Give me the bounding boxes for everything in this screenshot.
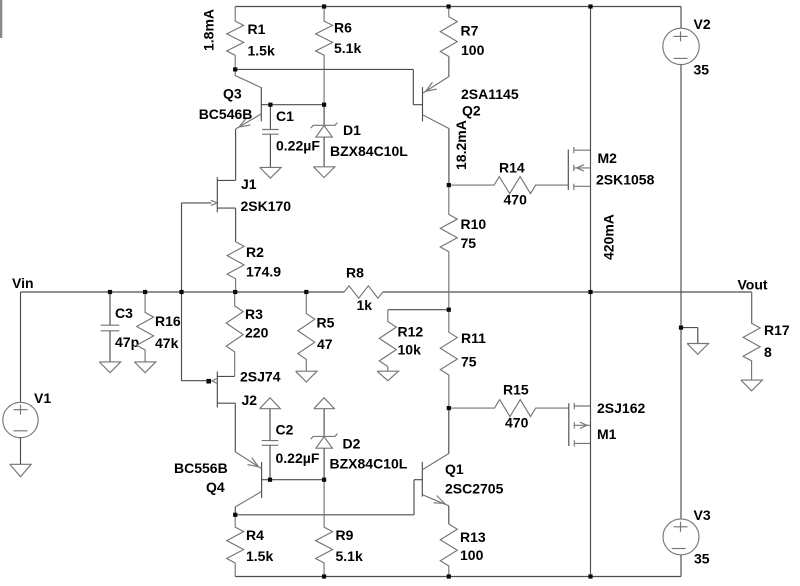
svg-text:V2: V2 (694, 16, 711, 32)
svg-text:35: 35 (694, 62, 710, 78)
svg-text:100: 100 (460, 547, 484, 563)
svg-text:D2: D2 (343, 436, 361, 452)
svg-text:V3: V3 (694, 507, 711, 523)
svg-text:D1: D1 (343, 122, 361, 138)
svg-text:2SC2705: 2SC2705 (445, 481, 504, 497)
svg-text:5.1k: 5.1k (336, 548, 363, 564)
svg-text:1k: 1k (357, 297, 373, 313)
svg-text:10k: 10k (398, 342, 422, 358)
svg-text:2SA1145: 2SA1145 (461, 86, 519, 102)
svg-text:35: 35 (694, 551, 710, 567)
svg-text:2SJ74: 2SJ74 (240, 369, 281, 385)
svg-text:220: 220 (245, 325, 269, 341)
svg-text:8: 8 (764, 344, 772, 360)
svg-text:R11: R11 (461, 330, 486, 346)
svg-text:1.5k: 1.5k (248, 43, 275, 59)
svg-text:BC546B: BC546B (199, 106, 253, 122)
svg-text:R12: R12 (398, 324, 424, 340)
svg-text:R7: R7 (461, 23, 479, 39)
svg-text:75: 75 (461, 354, 477, 370)
svg-text:100: 100 (461, 42, 485, 58)
svg-text:Vout: Vout (738, 277, 768, 293)
svg-text:BZX84C10L: BZX84C10L (330, 143, 408, 159)
svg-text:R5: R5 (317, 315, 335, 331)
svg-text:R17: R17 (764, 322, 790, 338)
svg-text:1.5k: 1.5k (246, 548, 273, 564)
svg-text:R8: R8 (346, 265, 364, 281)
svg-text:R16: R16 (155, 313, 181, 329)
svg-text:R14: R14 (499, 160, 525, 176)
svg-text:2SJ162: 2SJ162 (597, 400, 645, 416)
svg-text:75: 75 (461, 235, 477, 251)
svg-text:0.22µF: 0.22µF (276, 450, 320, 466)
svg-text:Q1: Q1 (445, 461, 464, 477)
svg-text:R2: R2 (246, 244, 264, 260)
svg-text:R15: R15 (503, 382, 529, 398)
svg-text:Q2: Q2 (462, 103, 481, 119)
svg-text:C2: C2 (276, 422, 294, 438)
svg-text:470: 470 (504, 192, 528, 208)
svg-text:47k: 47k (155, 335, 179, 351)
svg-text:174.9: 174.9 (246, 264, 281, 280)
svg-text:2SK1058: 2SK1058 (596, 172, 655, 188)
svg-text:J2: J2 (242, 392, 258, 408)
svg-text:R3: R3 (245, 306, 263, 322)
svg-text:V1: V1 (34, 390, 51, 406)
svg-text:R6: R6 (334, 20, 352, 36)
svg-text:47p: 47p (115, 334, 139, 350)
svg-text:18.2mA: 18.2mA (453, 120, 469, 170)
svg-text:5.1k: 5.1k (334, 40, 361, 56)
svg-text:BZX84C10L: BZX84C10L (330, 456, 408, 472)
svg-text:BC556B: BC556B (174, 460, 228, 476)
svg-text:C3: C3 (115, 305, 133, 321)
svg-text:420mA: 420mA (601, 214, 617, 260)
svg-text:47: 47 (317, 336, 333, 352)
svg-text:R10: R10 (461, 216, 487, 232)
svg-text:J1: J1 (241, 176, 257, 192)
svg-text:C1: C1 (276, 108, 294, 124)
svg-text:0.22µF: 0.22µF (276, 137, 320, 153)
svg-text:Q4: Q4 (206, 479, 225, 495)
svg-text:R4: R4 (246, 527, 264, 543)
svg-text:Q3: Q3 (223, 85, 242, 101)
svg-text:M2: M2 (598, 150, 618, 166)
svg-text:470: 470 (505, 415, 529, 431)
svg-text:M1: M1 (597, 426, 617, 442)
svg-text:Vin: Vin (12, 275, 34, 291)
svg-text:2SK170: 2SK170 (241, 198, 292, 214)
svg-text:R1: R1 (248, 21, 266, 37)
svg-text:R9: R9 (336, 527, 354, 543)
svg-text:1.8mA: 1.8mA (201, 9, 217, 51)
svg-text:R13: R13 (460, 529, 486, 545)
